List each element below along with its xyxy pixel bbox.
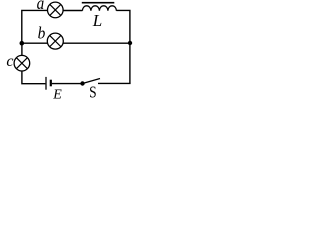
wire lamp c to bottom-left corner: [22, 71, 46, 84]
lamp c: [14, 55, 30, 71]
wire top-left segment: [22, 10, 48, 43]
svg-text:E: E: [52, 87, 62, 99]
junction dot left (node): [20, 41, 25, 46]
battery E short plate: [50, 80, 52, 87]
lamp b: [47, 33, 63, 49]
svg-text:S: S: [89, 83, 97, 99]
switch S lever: [83, 79, 101, 84]
svg-text:c: c: [6, 53, 13, 70]
wire battery to switch: [52, 83, 83, 85]
svg-text:L: L: [92, 11, 102, 30]
wire switch to bottom-right corner: [98, 82, 130, 85]
battery E long plate: [45, 77, 47, 90]
wire inductor to top-right corner and down: [116, 10, 129, 43]
svg-text:b: b: [38, 24, 46, 43]
wire b branch left: [22, 42, 48, 44]
lamp a: [48, 2, 64, 18]
inductor L core bar: [82, 2, 115, 4]
svg-text:a: a: [37, 0, 45, 13]
wire left side down to lamp c: [21, 43, 23, 55]
junction dot right (node): [128, 41, 132, 45]
wire b branch right: [63, 42, 130, 44]
switch S contact dot: [80, 81, 84, 85]
inductor L coil: [82, 6, 116, 11]
wire right side down: [129, 43, 131, 83]
wire from lamp a to inductor: [63, 10, 82, 12]
